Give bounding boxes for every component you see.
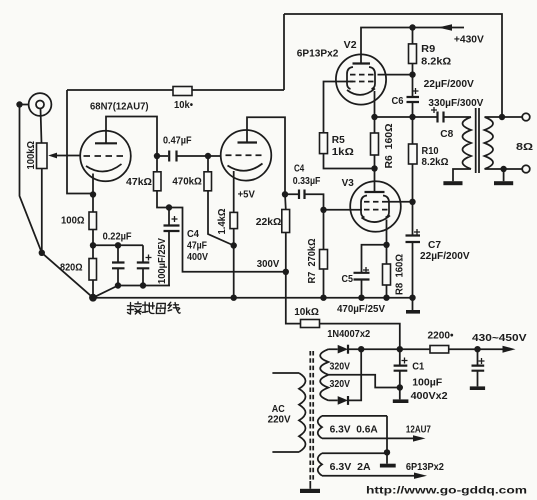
svg-text:300V: 300V xyxy=(257,258,280,270)
svg-text:1kΩ: 1kΩ xyxy=(332,146,354,158)
svg-text:1.4kΩ: 1.4kΩ xyxy=(216,209,228,235)
svg-text:6P13Px2: 6P13Px2 xyxy=(297,48,339,60)
svg-text:470kΩ: 470kΩ xyxy=(172,176,201,188)
svg-text:6.3V 2A: 6.3V 2A xyxy=(330,461,371,473)
svg-text:8.2kΩ: 8.2kΩ xyxy=(422,156,449,168)
svg-text:0.22µF: 0.22µF xyxy=(103,230,133,242)
svg-text:R7 270kΩ: R7 270kΩ xyxy=(306,239,318,284)
svg-text:1N4007x2: 1N4007x2 xyxy=(327,328,370,340)
svg-text:C4: C4 xyxy=(187,228,199,240)
svg-text:2200•: 2200• xyxy=(428,330,454,342)
svg-text:C6: C6 xyxy=(392,95,404,107)
svg-text:6.3V 0.6A: 6.3V 0.6A xyxy=(330,423,379,435)
svg-text:820Ω: 820Ω xyxy=(60,262,83,274)
svg-text:47kΩ: 47kΩ xyxy=(126,176,152,188)
svg-text:400Vx2: 400Vx2 xyxy=(411,390,448,402)
svg-text:100µF/25V: 100µF/25V xyxy=(156,238,168,284)
svg-text:6P13Px2: 6P13Px2 xyxy=(406,461,444,473)
svg-text:R8 160Ω: R8 160Ω xyxy=(393,254,405,295)
svg-text:8.2kΩ: 8.2kΩ xyxy=(421,56,451,68)
svg-text:430~450V: 430~450V xyxy=(472,332,527,344)
svg-text:22µF/200V: 22µF/200V xyxy=(424,78,474,90)
svg-text:R5: R5 xyxy=(332,134,345,146)
svg-text:V2: V2 xyxy=(344,39,357,51)
svg-text:8Ω: 8Ω xyxy=(516,141,533,153)
svg-text:320V: 320V xyxy=(330,361,351,373)
svg-text:V3: V3 xyxy=(342,177,354,189)
svg-text:100µF: 100µF xyxy=(412,377,443,389)
svg-text:330µF/300V: 330µF/300V xyxy=(428,97,483,109)
svg-text:0.47µF: 0.47µF xyxy=(163,135,192,147)
svg-text:470µF/25V: 470µF/25V xyxy=(337,303,385,315)
svg-text:R9: R9 xyxy=(421,43,435,55)
svg-text:68N7(12AU7): 68N7(12AU7) xyxy=(90,101,149,113)
svg-text:22kΩ: 22kΩ xyxy=(256,216,282,228)
svg-text:C4: C4 xyxy=(294,162,304,174)
svg-text:C8: C8 xyxy=(440,128,453,140)
svg-text:C1: C1 xyxy=(412,361,424,373)
svg-text:http://www.go-gddq.com: http://www.go-gddq.com xyxy=(366,485,527,497)
svg-text:0.33µF: 0.33µF xyxy=(293,175,321,187)
svg-text:220V: 220V xyxy=(268,414,291,426)
svg-text:10k•: 10k• xyxy=(174,99,193,111)
svg-text:12AU7: 12AU7 xyxy=(406,423,431,435)
svg-text:100kΩ: 100kΩ xyxy=(25,141,37,170)
svg-text:320V: 320V xyxy=(330,378,351,390)
svg-text:100Ω: 100Ω xyxy=(61,215,85,227)
svg-text:22µF/200V: 22µF/200V xyxy=(420,250,470,262)
svg-text:+5V: +5V xyxy=(238,189,255,201)
svg-text:+430V: +430V xyxy=(454,33,484,45)
svg-text:47µF: 47µF xyxy=(187,240,207,252)
svg-text:400V: 400V xyxy=(187,251,208,263)
svg-text:10kΩ: 10kΩ xyxy=(294,306,319,318)
svg-text:C7: C7 xyxy=(428,239,441,251)
svg-text:C5: C5 xyxy=(342,273,354,285)
svg-text:R6 160Ω: R6 160Ω xyxy=(383,124,395,169)
